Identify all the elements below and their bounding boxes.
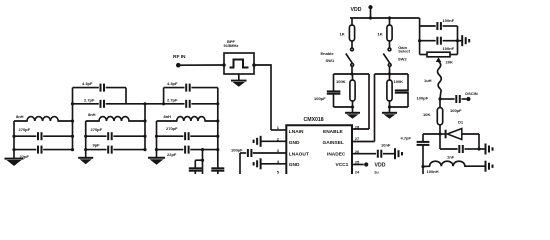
capacitor (output, left) <box>189 160 203 174</box>
svg-text:ENABLE: ENABLE <box>323 129 344 135</box>
inductor 100nH <box>423 161 485 174</box>
inductor 8nH (1) <box>14 114 73 121</box>
capacitor 100pF (LNAOUT) <box>231 147 251 157</box>
svg-text:27: 27 <box>355 136 360 141</box>
svg-text:INADEC: INADEC <box>327 152 346 158</box>
junction OSC node <box>438 97 441 100</box>
svg-text:GND: GND <box>289 162 300 168</box>
label SW2 <box>398 57 407 62</box>
ground (sideways right, pin26) <box>395 148 402 159</box>
svg-text:2.7pF: 2.7pF <box>167 97 178 102</box>
ground (section3) <box>148 150 165 165</box>
svg-text:4.3pF: 4.3pF <box>82 81 93 86</box>
svg-text:100pF: 100pF <box>314 96 326 101</box>
capacitor 9pF (2) <box>86 143 145 154</box>
svg-text:10K: 10K <box>423 112 430 117</box>
ground (sideways right, top) <box>458 35 470 46</box>
trimmer wiper arrow <box>436 57 442 62</box>
svg-text:Enable: Enable <box>321 51 335 56</box>
resistor 100K (SW2) <box>387 74 403 112</box>
pin 4 wire <box>261 159 286 164</box>
junction row B right <box>216 102 219 105</box>
junction row C2 drop <box>201 148 204 174</box>
svg-text:SW1: SW1 <box>326 58 335 63</box>
svg-text:D1: D1 <box>458 119 464 124</box>
BPF bandpass glyph <box>230 60 249 68</box>
inductor 8nH (3) <box>157 114 218 121</box>
label Enable <box>321 51 335 56</box>
inductor 8nH (2) <box>86 112 145 121</box>
svg-text:Select: Select <box>398 49 410 54</box>
svg-text:100nF: 100nF <box>443 46 455 51</box>
pin 2 wire <box>261 137 286 142</box>
wire section1 left side <box>12 121 15 151</box>
svg-text:RF IN: RF IN <box>173 54 186 60</box>
wire D1 loop right <box>478 134 480 149</box>
svg-text:1nF: 1nF <box>447 154 455 159</box>
resistor R1 1K <box>340 18 355 48</box>
pin 28 wire <box>352 124 369 129</box>
svg-text:100pF: 100pF <box>231 147 243 152</box>
resistor 100K (SW1) <box>336 74 355 112</box>
svg-text:10nF: 10nF <box>381 142 391 147</box>
ground (sideways left, pin2) <box>254 136 261 147</box>
svg-text:100nF: 100nF <box>443 18 455 23</box>
label 20K <box>446 60 453 65</box>
capacitor 4.7pF <box>401 134 441 167</box>
capacitor 1nF <box>440 145 479 159</box>
switch SW2 <box>383 48 391 74</box>
svg-text:100K: 100K <box>394 79 404 84</box>
diode D1 <box>440 119 479 139</box>
pin 5 number <box>277 170 280 175</box>
wire right vertical <box>457 26 459 55</box>
resistor 10K <box>423 99 443 134</box>
pin 27 wire <box>352 136 375 142</box>
capacitor 100pF (OSCIN) <box>440 95 466 113</box>
wire D1 loop left <box>439 134 441 149</box>
wire section1 right side riser <box>71 88 74 152</box>
capacitor 100pF (SW2) <box>390 74 429 107</box>
junction loop/ground <box>477 147 480 150</box>
label Gain Select <box>398 45 410 54</box>
junction row B mid <box>143 102 146 105</box>
capacitor 100nF (lower) <box>418 37 459 51</box>
svg-text:LNAOUT: LNAOUT <box>289 152 309 158</box>
svg-text:8nH: 8nH <box>88 112 96 117</box>
IC internal pin names right <box>323 129 349 168</box>
wire pin28 riser <box>368 74 370 129</box>
ground (sideways right, D1) <box>479 144 493 155</box>
svg-text:1u: 1u <box>374 169 379 174</box>
svg-text:1K: 1K <box>378 32 383 37</box>
wire section3 left side <box>155 121 158 151</box>
svg-text:1uH: 1uH <box>424 78 432 83</box>
ground (SW2 node) <box>382 113 397 119</box>
capacitor 100pF (SW1) <box>314 74 353 107</box>
OSCIN terminal <box>465 91 478 101</box>
wire BPF out riser to pin1 <box>254 65 271 130</box>
ground (sideways right, 100nH) <box>486 161 493 172</box>
svg-text:VDD: VDD <box>351 7 362 13</box>
wire section2 left side <box>84 121 87 151</box>
svg-text:CMX018: CMX018 <box>304 117 324 123</box>
svg-text:2.7pF: 2.7pF <box>84 97 95 102</box>
BPF output node <box>252 63 256 67</box>
pin 24 number <box>355 169 379 174</box>
IC internal pin names left <box>289 129 309 168</box>
ground (section2) <box>78 150 93 165</box>
wire 100pF drop <box>239 153 241 174</box>
svg-text:915MHz: 915MHz <box>224 43 239 48</box>
IC U1 CMX018 box <box>286 117 352 174</box>
node VDD label <box>351 7 362 13</box>
svg-text:20K: 20K <box>446 60 453 65</box>
svg-text:VCC1: VCC1 <box>336 162 349 168</box>
capacitor 10nF (INADEC) <box>378 142 395 157</box>
svg-text:OSCIN: OSCIN <box>465 91 478 96</box>
ground (SW1 node) <box>345 113 360 119</box>
wire section2 right side riser <box>143 104 146 151</box>
capacitor 22pF (3) <box>157 146 218 157</box>
wire SW2 node rail <box>375 72 409 75</box>
capacitor 100nF (upper) <box>420 18 458 30</box>
capacitor 270pF (1) <box>14 127 73 140</box>
svg-text:270pF: 270pF <box>19 127 31 132</box>
resistor R2 1K <box>378 18 393 48</box>
pin 3 wire <box>253 148 286 153</box>
svg-text:22pF: 22pF <box>167 152 177 157</box>
svg-text:100nH: 100nH <box>427 169 439 174</box>
junction on rail at stub <box>369 16 372 19</box>
ground (section1) <box>5 150 24 166</box>
svg-text:100pF: 100pF <box>450 108 462 113</box>
svg-text:8nH: 8nH <box>164 114 172 119</box>
capacitor 4.3pF (rect1 top) <box>73 81 127 91</box>
wire rail corner down <box>419 18 421 55</box>
junction D1 node <box>438 132 441 135</box>
filter BPF 915MHz box <box>224 39 255 74</box>
svg-text:LNAIN: LNAIN <box>289 129 304 135</box>
capacitor 22pF (1) <box>14 146 73 159</box>
ground (sideways left, pin4) <box>254 158 261 169</box>
svg-text:4.3pF: 4.3pF <box>167 81 178 86</box>
svg-text:270pF: 270pF <box>91 127 103 132</box>
RF IN terminal <box>173 54 186 68</box>
ground (BPF) <box>231 74 247 87</box>
svg-text:VDD: VDD <box>375 162 386 168</box>
svg-text:270pF: 270pF <box>166 126 178 131</box>
svg-text:GND: GND <box>289 140 300 146</box>
wire rect1 right side <box>125 88 127 104</box>
svg-text:8nH: 8nH <box>16 114 24 119</box>
junction row B left <box>71 102 74 105</box>
label 1uH (wiper) <box>424 78 432 83</box>
pin 25 wire + VDD terminal <box>352 160 386 169</box>
wire section3 right side riser <box>216 88 219 168</box>
wire pin27 riser <box>374 74 376 142</box>
svg-text:100pF: 100pF <box>417 95 429 100</box>
junction 4.7pF / L node <box>421 165 424 174</box>
svg-text:GAINSEL: GAINSEL <box>323 140 344 146</box>
svg-text:24: 24 <box>355 169 360 174</box>
capacitor 270pF (2) <box>86 127 145 140</box>
wire SW1 node rail <box>334 72 370 75</box>
capacitor 2.7pF (rect1 bottom) <box>73 97 146 107</box>
trimmer 20K body <box>420 52 458 57</box>
switch SW1 <box>346 48 354 74</box>
wire VDD rail <box>350 17 420 19</box>
junction on rail at R2 <box>388 16 391 19</box>
pin 26 wire <box>352 149 376 154</box>
label SW1 <box>326 58 335 63</box>
capacitor 270pF (3) <box>157 126 218 140</box>
wire RF IN to BPF <box>178 63 226 67</box>
svg-text:SW2: SW2 <box>398 57 407 62</box>
wire rect2 left side <box>163 88 165 104</box>
wavy wiper wire <box>438 62 442 100</box>
capacitor 4.3pF (rect2 top) <box>164 81 218 91</box>
svg-text:4.7pF: 4.7pF <box>401 135 412 140</box>
svg-text:100K: 100K <box>336 79 346 84</box>
svg-text:9pF: 9pF <box>93 143 101 148</box>
capacitor 2.7pF (rect2 bottom) <box>145 97 218 107</box>
svg-text:26: 26 <box>355 149 360 154</box>
svg-text:28: 28 <box>355 124 360 129</box>
svg-text:1K: 1K <box>340 32 345 37</box>
VDD terminal <box>368 5 372 18</box>
svg-text:25: 25 <box>355 160 360 165</box>
capacitor (output, right) <box>211 168 224 174</box>
pin 1 wire <box>271 125 286 130</box>
